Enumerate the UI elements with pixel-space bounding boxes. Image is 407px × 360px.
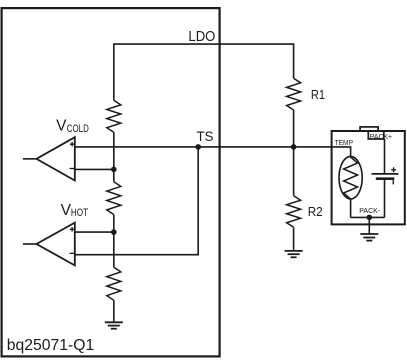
wire R2 to ground [293, 227, 295, 251]
ground below R2 [285, 251, 303, 257]
wire battery positive lead [384, 139, 386, 174]
PACK+ terminal tab [360, 127, 378, 131]
ground internal divider [105, 322, 123, 328]
resistor internal top (divider) [107, 100, 121, 132]
op-amp VCOLD plus marker [70, 142, 75, 147]
svg-text:PACK-: PACK- [359, 208, 380, 215]
wire divider to ground [113, 300, 115, 322]
wire pack ground lead [368, 217, 370, 234]
PACK+ terminal box [368, 131, 384, 139]
wire LDO net [114, 44, 294, 100]
wire TS net [75, 147, 351, 157]
wire VCOLD output stub [23, 158, 37, 160]
wire VHOT minus to TS [75, 147, 198, 255]
svg-text:PACK+: PACK+ [370, 134, 392, 141]
resistor internal bottom (divider) [107, 267, 121, 300]
battery plus sign [391, 167, 396, 172]
wire battery negative lead [384, 179, 386, 218]
wire pack bottom rail [351, 216, 385, 218]
battery pack enclosure [332, 131, 405, 224]
wire TS to R2 [293, 147, 295, 196]
thermistor ellipse [339, 156, 362, 199]
svg-text:COLD: COLD [67, 123, 89, 135]
resistor R2 [287, 196, 301, 228]
resistor R1 [287, 78, 301, 110]
wire divider segment 2 [113, 215, 115, 268]
svg-text:R2: R2 [308, 204, 323, 219]
svg-text:TS: TS [197, 128, 214, 144]
wire R1 to TS [293, 110, 295, 147]
node VHOT plus / divider junction [111, 229, 117, 235]
battery cell positive plate [372, 173, 399, 175]
svg-text:V: V [56, 118, 67, 135]
wire VCOLD minus input [75, 168, 114, 170]
resistor internal middle (divider) [107, 182, 121, 215]
wire thermistor to pack rail [350, 199, 352, 217]
node TS junction [195, 144, 201, 150]
battery cell negative plate [376, 177, 395, 180]
svg-text:HOT: HOT [71, 207, 88, 219]
op-amp VCOLD minus marker [70, 168, 75, 170]
svg-text:TEMP: TEMP [335, 140, 354, 147]
node R1 R2 TS junction [291, 144, 297, 150]
IC boundary box bq25071-Q1 [2, 8, 220, 356]
svg-text:R1: R1 [311, 87, 325, 102]
wire VHOT plus input [75, 231, 114, 233]
op-amp VHOT comparator [37, 223, 75, 266]
node pack ground junction [367, 215, 373, 221]
op-amp VHOT plus marker [70, 227, 75, 232]
svg-text:bq25071-Q1: bq25071-Q1 [7, 337, 95, 354]
wire divider segment 1 [113, 132, 115, 181]
svg-text:LDO: LDO [188, 29, 215, 45]
thermistor zigzag [344, 157, 358, 199]
op-amp VHOT minus marker [70, 252, 75, 254]
op-amp VCOLD comparator [37, 137, 75, 180]
wire VHOT output stub [23, 243, 37, 245]
ground battery pack [360, 234, 378, 241]
node VCOLD minus / divider junction [111, 167, 117, 173]
battery minus sign [392, 180, 394, 184]
